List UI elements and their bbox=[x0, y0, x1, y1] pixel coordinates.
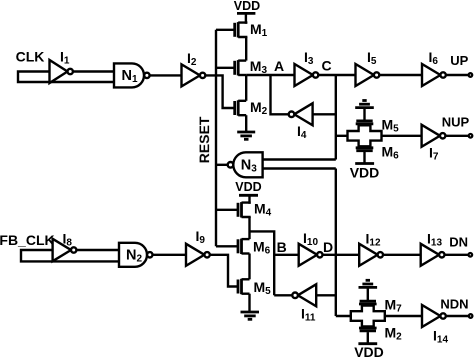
NAND N3 (points left) bbox=[228, 152, 263, 177]
wire node D to I12 bbox=[323, 254, 360, 256]
wire I11 output to node B vertical bbox=[274, 294, 292, 296]
wire node C vertical to N3 input bbox=[335, 75, 337, 160]
power VDD below transmission gate bbox=[355, 152, 374, 164]
inverter I8 bbox=[53, 239, 77, 261]
ground (inverted) above M5 gate bbox=[355, 101, 374, 120]
power VDD bar bottom stack bbox=[239, 194, 258, 197]
inverter I10 bbox=[299, 244, 323, 266]
inverter I9 bbox=[186, 244, 210, 266]
svg-text:C: C bbox=[321, 58, 331, 74]
inverter I2 bbox=[182, 64, 206, 86]
wire I14 to NDN terminal bbox=[446, 315, 469, 317]
node NUP terminal bbox=[469, 134, 473, 138]
wire I9 output jog to M5 gate bbox=[210, 255, 238, 287]
wire I12 to I13 bbox=[383, 254, 421, 256]
svg-text:VDD: VDD bbox=[354, 344, 384, 357]
wire M1 source to M3 drain bbox=[245, 37, 247, 61]
node FB_CLK input rectangle bbox=[21, 250, 119, 261]
transistor M7 transmission gate top bbox=[359, 301, 377, 304]
inverter I7 bbox=[422, 125, 446, 147]
wire I5 to I6 bbox=[379, 74, 422, 76]
transistor M5 bbox=[238, 279, 250, 294]
wire M3 source to M2 drain (node A stem) bbox=[245, 75, 247, 101]
inverter I4 (points left) bbox=[289, 103, 313, 125]
svg-text:A: A bbox=[274, 58, 284, 74]
wire RESET vertical bbox=[215, 30, 217, 247]
wire node D to bottom transmission gate bbox=[336, 315, 352, 317]
svg-text:CLK: CLK bbox=[16, 49, 45, 65]
wire N3 bottom input from node D bbox=[263, 167, 336, 169]
inverter I14 bbox=[422, 305, 446, 327]
transistor M3 bbox=[216, 60, 246, 75]
wire node C to I5 bbox=[318, 74, 355, 76]
node UP terminal bbox=[469, 73, 473, 77]
transistor M2 transmission gate bottom bbox=[359, 328, 377, 331]
svg-text:VDD: VDD bbox=[234, 0, 260, 13]
power VDD below bottom tgate bbox=[358, 332, 377, 344]
wire node B to I10 bbox=[274, 254, 299, 256]
wire I8 output to N2 bbox=[76, 249, 119, 251]
transmission gate body bottom bbox=[351, 306, 385, 327]
transistor M1 bbox=[216, 22, 246, 38]
power VDD bar top bbox=[237, 12, 255, 15]
svg-text:FB_CLK: FB_CLK bbox=[0, 232, 55, 248]
svg-text:RESET: RESET bbox=[196, 116, 212, 163]
wire VDD to M4 drain bbox=[248, 195, 250, 204]
wire N3 output to RESET vertical bbox=[216, 164, 228, 166]
inverter I1 bbox=[50, 60, 73, 83]
wire N2 to I9 bbox=[153, 254, 187, 256]
svg-text:VDD: VDD bbox=[350, 164, 380, 180]
wire N3 top input from node C bbox=[263, 158, 336, 160]
inverter I11 (points left) bbox=[292, 284, 316, 306]
wire I4 input from node C vertical bbox=[313, 113, 336, 115]
ground below M2 bbox=[237, 115, 255, 139]
wire I1 output to N1 bbox=[72, 70, 114, 72]
wire VDD to M1 drain bbox=[245, 13, 247, 23]
wire I2 output jog to M2 gate bbox=[205, 75, 235, 108]
wire M6 source to M5 drain bbox=[248, 254, 250, 280]
wire node A to I3 bbox=[246, 74, 294, 76]
wire node D vertical bbox=[335, 169, 337, 317]
inverter I6 bbox=[422, 64, 446, 86]
wire I11 input from node D vertical bbox=[316, 294, 336, 296]
wire N1 to I2 bbox=[150, 74, 182, 76]
svg-text:DN: DN bbox=[449, 235, 468, 250]
node DN terminal bbox=[469, 253, 473, 257]
transistor M6 transmission gate bottom bbox=[356, 148, 374, 151]
transistor M6 bbox=[216, 239, 250, 254]
svg-text:D: D bbox=[323, 239, 333, 255]
ground (inverted) above M7 gate bbox=[359, 280, 378, 300]
ground below M5 bbox=[241, 294, 260, 320]
svg-text:UP: UP bbox=[450, 53, 468, 68]
wire node B jog bbox=[250, 231, 275, 295]
svg-text:B: B bbox=[277, 239, 287, 255]
wire bottom tgate to I14 bbox=[384, 315, 422, 317]
inverter I13 bbox=[421, 244, 445, 266]
NAND N1 bbox=[114, 63, 150, 87]
NAND N2 bbox=[119, 243, 153, 267]
wire node A down to I4 output bbox=[271, 75, 289, 114]
wire node C to transmission gate left bbox=[336, 135, 349, 137]
inverter I12 bbox=[359, 244, 383, 266]
wire tgate to I7 bbox=[381, 135, 422, 137]
svg-text:NDN: NDN bbox=[440, 297, 468, 312]
node NDN terminal bbox=[469, 314, 473, 318]
svg-text:VDD: VDD bbox=[235, 180, 261, 194]
wire I7 to NUP terminal bbox=[445, 135, 468, 137]
transistor M4 bbox=[216, 202, 250, 218]
inverter I3 bbox=[295, 64, 319, 86]
wire M4 source to M6 drain bbox=[248, 217, 250, 239]
node CLK input rectangle bbox=[18, 72, 114, 83]
transmission gate body top bbox=[348, 125, 382, 146]
svg-text:NUP: NUP bbox=[442, 115, 470, 130]
wire I13 to DN terminal bbox=[445, 254, 469, 256]
transistor M5 transmission gate top bbox=[356, 121, 374, 124]
wire I6 to UP terminal bbox=[446, 74, 469, 76]
inverter I5 bbox=[356, 64, 380, 86]
transistor M2 bbox=[235, 100, 247, 115]
